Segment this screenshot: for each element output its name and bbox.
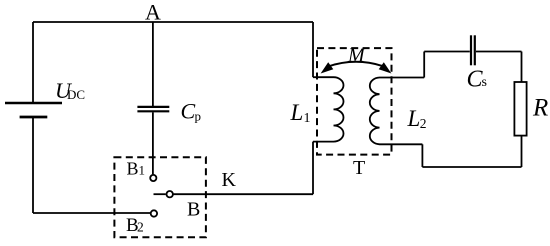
svg-text:2: 2 [137, 220, 144, 235]
wire left vertical from top rail to battery positive [32, 22, 34, 102]
switch K blade stub [154, 193, 166, 195]
svg-text:1: 1 [304, 111, 311, 126]
wire left vertical from battery negative down [32, 118, 34, 213]
wire secondary top jog vertical [423, 52, 425, 78]
capacitor Cs left plate [470, 35, 472, 65]
wire secondary top horizontal to capacitor Cs [424, 51, 470, 53]
battery U_DC short plate [20, 116, 48, 119]
svg-text:R: R [532, 95, 548, 122]
svg-text:p: p [195, 109, 202, 124]
wire primary lower vertical from L1 to K wire [312, 142, 314, 195]
capacitor Cs right plate [474, 35, 476, 65]
wire bottom-left horizontal to contact B2 [33, 212, 150, 214]
transformer T dashed enclosure box [317, 48, 392, 155]
wire top horizontal A-rail [33, 21, 313, 23]
svg-text:B: B [127, 158, 139, 178]
mutual inductance M coupling arrow arc [328, 62, 384, 67]
mutual inductance M arrowhead left [321, 62, 334, 73]
svg-text:B: B [187, 199, 200, 221]
wire from resistor R down to bottom-right rail [521, 136, 523, 167]
svg-text:C: C [181, 99, 196, 124]
pole contact circle B [167, 191, 173, 197]
svg-text:K: K [222, 169, 237, 191]
svg-text:T: T [353, 157, 365, 179]
capacitor Cp bottom plate [137, 110, 169, 112]
contact circle B2 [151, 210, 157, 216]
wire primary upper vertical from top rail to L1 [312, 22, 314, 77]
svg-text:L: L [407, 106, 421, 131]
battery U_DC long plate [5, 102, 62, 104]
inductor L2 coil [370, 78, 424, 145]
capacitor Cp top plate [137, 106, 169, 108]
wire bottom-right horizontal [422, 166, 521, 168]
contact circle B1 [150, 175, 156, 181]
switch dashed enclosure box [114, 157, 205, 237]
svg-text:A: A [145, 0, 161, 25]
wire node A branch down to capacitor Cp [152, 22, 154, 106]
wire K from pole to primary branch [173, 193, 313, 195]
svg-text:1: 1 [139, 163, 146, 178]
svg-text:s: s [482, 75, 487, 90]
svg-text:M: M [347, 45, 366, 67]
inductor L1 coil [313, 77, 344, 141]
wire right vertical down to resistor R [521, 52, 523, 83]
wire from Cp down to contact B1 [152, 112, 154, 174]
svg-text:DC: DC [67, 87, 85, 102]
svg-text:2: 2 [420, 116, 427, 131]
wire secondary bottom jog vertical [421, 144, 423, 167]
mutual inductance M arrowhead right [379, 62, 392, 73]
svg-text:L: L [290, 100, 304, 125]
wire from Cs to top-right corner [476, 51, 522, 53]
resistor R body [514, 82, 526, 136]
